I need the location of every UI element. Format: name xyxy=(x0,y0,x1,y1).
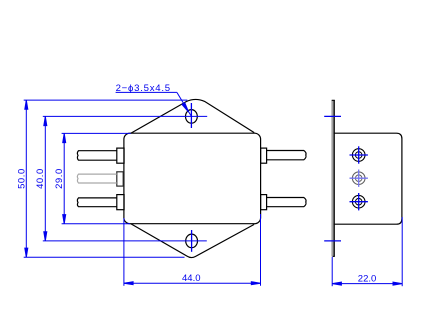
svg-text:40.0: 40.0 xyxy=(35,168,46,189)
dimension 44.0 line with arrows xyxy=(124,282,261,285)
svg-text:44.0: 44.0 xyxy=(182,273,201,284)
dimension 22.0 extension right xyxy=(401,217,403,286)
dimension 29.0 extension top xyxy=(62,132,131,134)
top hole vertical centerline xyxy=(190,103,192,128)
side view terminal bottom xyxy=(350,193,368,210)
left terminal pin top xyxy=(77,148,124,163)
dimension 22.0 extension left xyxy=(331,257,333,286)
dimension 29.0 line with arrows xyxy=(63,133,66,223)
side view terminal top xyxy=(350,146,368,163)
side view top hole centerline mark xyxy=(324,115,341,117)
dimension 44.0 extension left xyxy=(123,218,125,286)
side view body outline xyxy=(334,133,402,224)
dimension 50.0 extension top xyxy=(24,99,188,101)
dimension 50.0 extension bottom xyxy=(24,256,185,258)
side view flange plate (edge view, grey+black lines) xyxy=(331,100,333,256)
hole callout underline and leader xyxy=(116,92,192,116)
dimension 40.0 line with arrows xyxy=(44,116,47,240)
dimension 22.0 line with arrows xyxy=(332,282,402,285)
right terminal pin top xyxy=(261,148,306,163)
side view bottom hole centerline mark xyxy=(324,240,341,242)
dimension 44.0 extension right xyxy=(260,214,262,286)
svg-text:22.0: 22.0 xyxy=(358,274,377,285)
bottom mounting flange xyxy=(131,224,255,258)
top mounting hole xyxy=(186,110,198,124)
front view body outline xyxy=(124,133,261,224)
svg-text:29.0: 29.0 xyxy=(54,168,65,189)
right terminal pin bottom xyxy=(261,195,306,210)
dimension 29.0 extension bottom xyxy=(62,223,130,225)
side view terminal middle (grey) xyxy=(350,170,368,187)
bottom hole vertical centerline xyxy=(191,230,193,252)
left terminal pin bottom xyxy=(77,195,124,210)
left terminal pin middle (grey shaft, dark base) xyxy=(77,172,123,186)
top mounting flange xyxy=(131,99,255,133)
bottom mounting hole xyxy=(186,234,198,248)
dimension 40.0 extension bottom (to bottom hole centerline) xyxy=(43,240,207,242)
dimension 40.0 extension top (to top hole centerline) xyxy=(43,115,207,117)
svg-text:50.0: 50.0 xyxy=(16,168,27,189)
dimension 50.0 line with arrows xyxy=(25,100,28,257)
